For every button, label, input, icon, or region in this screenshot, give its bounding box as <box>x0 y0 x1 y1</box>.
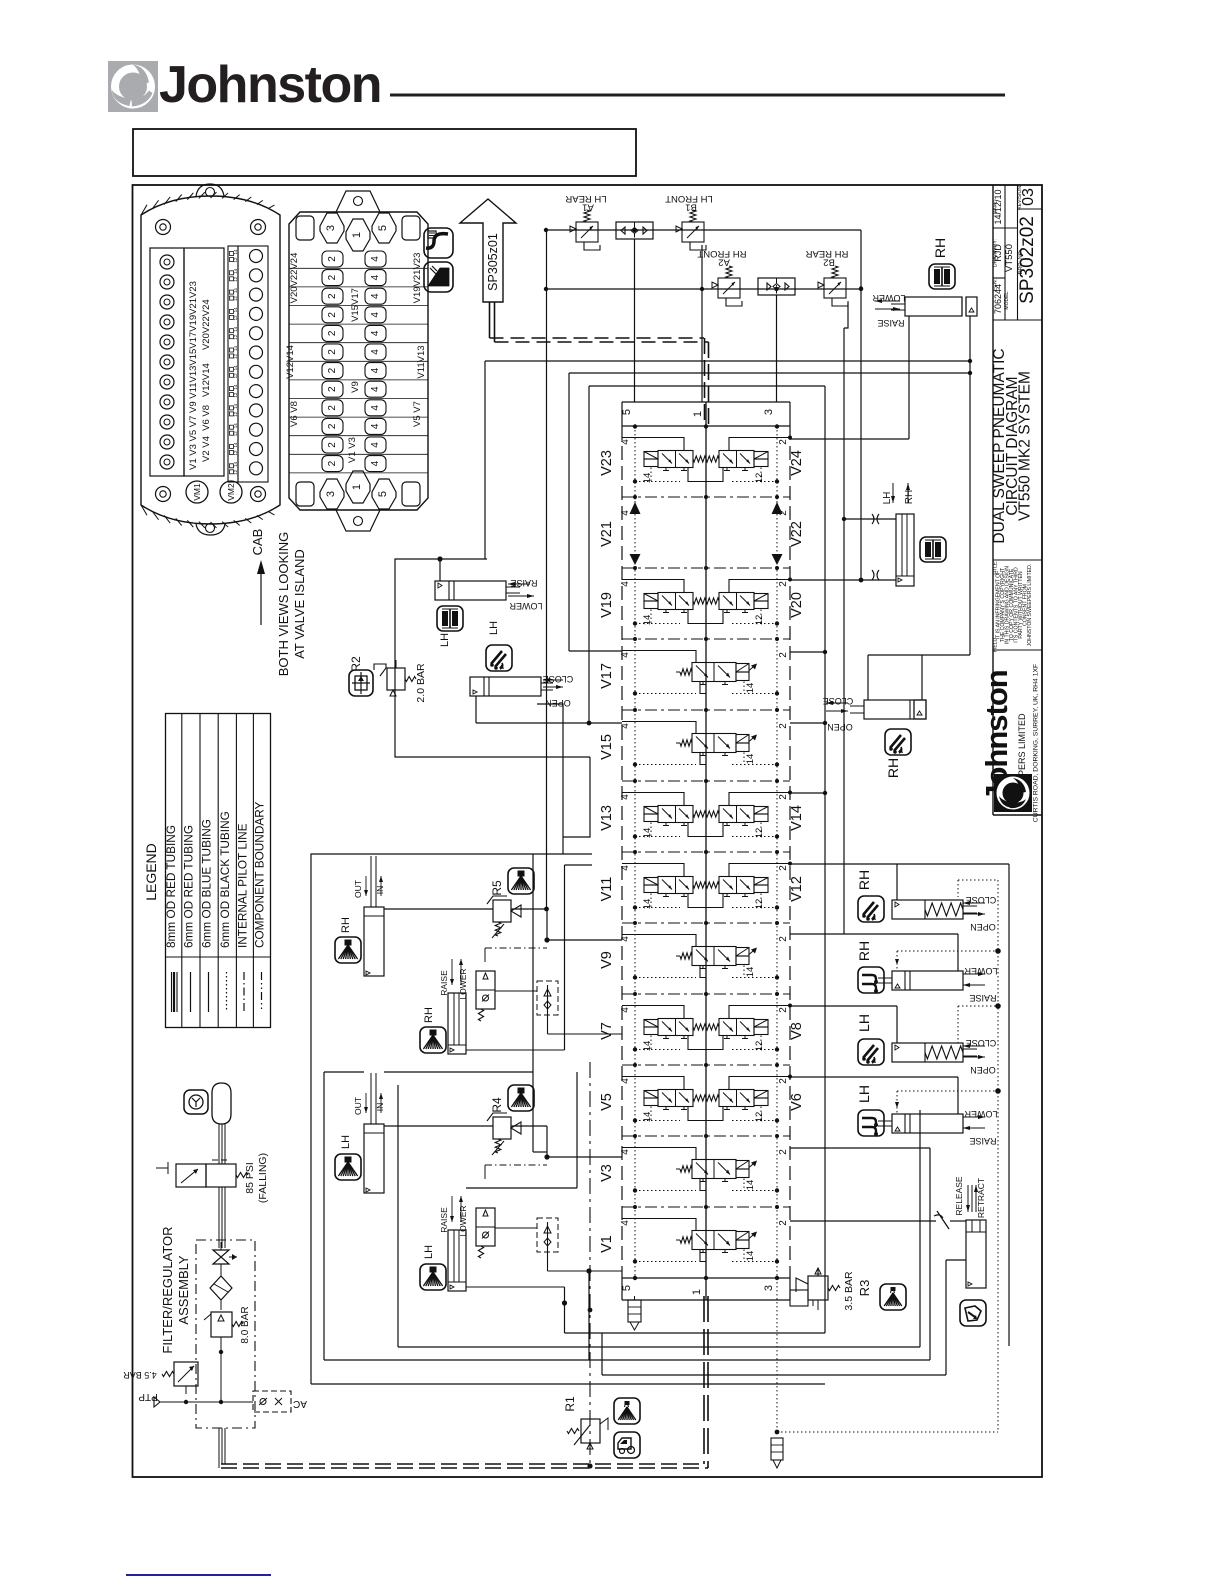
svg-text:OPEN: OPEN <box>827 722 853 732</box>
svg-text:85 PSI: 85 PSI <box>244 1162 256 1194</box>
pipes switch to box <box>218 1187 220 1248</box>
regulator R3 <box>808 1276 828 1300</box>
svg-text:4: 4 <box>370 274 381 280</box>
valve V17 single solenoid valve <box>622 651 779 696</box>
wire pilot bus lower <box>546 288 861 290</box>
icon rotary RH brush <box>858 896 884 922</box>
wire LH aux vertical <box>576 1072 578 1188</box>
icon lift RH <box>858 967 884 993</box>
svg-text:4: 4 <box>370 256 381 262</box>
svg-text:14/12/10: 14/12/10 <box>993 189 1003 224</box>
svg-text:LOWER: LOWER <box>509 601 543 611</box>
icon solenoid mid right <box>920 537 946 562</box>
svg-text:VM2: VM2 <box>226 483 236 501</box>
wire V17 port2 stub <box>790 651 825 653</box>
valve V13/V14 double solenoid valve <box>622 791 792 839</box>
flow arrows V21 V22 <box>630 502 641 514</box>
svg-text:12: 12 <box>233 411 238 417</box>
legend line samples <box>171 972 173 1012</box>
svg-text:2: 2 <box>778 1078 789 1084</box>
svg-text:V11V13: V11V13 <box>416 345 427 378</box>
svg-text:2: 2 <box>327 367 338 373</box>
svg-text:4: 4 <box>620 581 631 587</box>
svg-text:CLOSE: CLOSE <box>823 696 854 706</box>
connector block corner screws <box>156 220 171 235</box>
svg-text:OPEN: OPEN <box>970 1065 996 1075</box>
filter regulator boundary box <box>196 1240 255 1428</box>
svg-text:3: 3 <box>325 491 337 497</box>
svg-text:VT550: VT550 <box>1004 244 1015 272</box>
svg-text:V8: V8 <box>789 1022 805 1040</box>
svg-text:V17: V17 <box>599 663 615 689</box>
svg-text:14: 14 <box>642 828 653 839</box>
svg-text:V12: V12 <box>789 876 805 902</box>
svg-text:12: 12 <box>754 899 765 910</box>
wire bus top B <box>569 372 970 374</box>
svg-text:14: 14 <box>233 326 238 332</box>
icon water spray <box>424 262 453 292</box>
wire supply drop to LH subsystem <box>532 854 534 1152</box>
svg-text:12: 12 <box>233 276 238 282</box>
svg-text:12: 12 <box>233 373 238 379</box>
svg-text:12: 12 <box>233 296 238 302</box>
vertical cylinder LH/RH gear <box>896 514 914 586</box>
svg-text:RAISE: RAISE <box>439 1207 449 1233</box>
pilot valve A2 <box>712 266 742 306</box>
svg-text:4: 4 <box>620 1149 631 1155</box>
svg-text:03: 03 <box>1020 188 1037 206</box>
valve row separator <box>622 780 790 782</box>
svg-text:4: 4 <box>620 1007 631 1013</box>
svg-text:IN: IN <box>375 886 385 895</box>
island port buttons top <box>296 216 314 240</box>
svg-text:LH: LH <box>882 492 893 505</box>
valve V1 single solenoid valve <box>622 1219 779 1264</box>
svg-text:5: 5 <box>621 409 633 415</box>
wire bus top C <box>589 385 825 387</box>
valve V5/V6 double solenoid valve <box>622 1075 792 1123</box>
island station rows <box>289 267 428 269</box>
icon gauge <box>184 1090 208 1114</box>
valve bank port 1 rail <box>705 402 707 1300</box>
svg-text:V12V14: V12V14 <box>285 345 296 379</box>
svg-text:1: 1 <box>691 1289 703 1295</box>
wire subsystem verticals <box>564 865 566 1050</box>
svg-text:1: 1 <box>351 232 363 238</box>
valve row separator <box>622 1135 790 1137</box>
svg-text:AC: AC <box>293 1398 307 1409</box>
wire solid rail right <box>1008 864 1010 1346</box>
wire V3 port2 to bus <box>790 1147 930 1149</box>
svg-text:V6 V8: V6 V8 <box>289 401 300 427</box>
valve row separator <box>622 567 790 569</box>
svg-text:PTP: PTP <box>138 1391 158 1402</box>
wire LH check output <box>588 1271 590 1360</box>
svg-text:R3: R3 <box>857 1280 872 1297</box>
actuator RH brush OPEN/CLOSE <box>892 900 963 919</box>
svg-text:FILTER/REGULATOR: FILTER/REGULATOR <box>160 1226 175 1353</box>
wires squeegee <box>867 655 869 700</box>
icon rotary LH mid <box>486 645 512 671</box>
svg-text:2: 2 <box>778 865 789 871</box>
wire R5 supply drop <box>546 345 548 909</box>
wire bus join left <box>546 230 548 345</box>
svg-text:V5 V7: V5 V7 <box>412 401 423 427</box>
svg-text:5: 5 <box>377 491 389 497</box>
svg-text:V21: V21 <box>599 521 615 547</box>
svg-text:RH: RH <box>904 490 915 504</box>
svg-text:V23: V23 <box>599 450 615 476</box>
wire R2 box feed from bus <box>484 361 486 559</box>
wire bus right leg <box>860 230 862 580</box>
subsystem boxes <box>311 854 592 1384</box>
svg-text:12: 12 <box>233 392 238 398</box>
svg-text:LH: LH <box>856 1014 872 1032</box>
svg-text:RH: RH <box>856 870 872 890</box>
pilot dotted LH open <box>957 1006 959 1043</box>
wire bus top A <box>485 360 970 362</box>
svg-text:RAISE: RAISE <box>877 318 904 328</box>
svg-text:2: 2 <box>778 936 789 942</box>
actuator LH brush OPEN/CLOSE <box>892 1043 963 1062</box>
wire RH open feed <box>896 864 898 900</box>
svg-text:LH: LH <box>340 1135 352 1149</box>
valve row separator <box>622 993 790 995</box>
wire V15 port2 stub <box>790 722 825 724</box>
cylinder RH squeegee OPEN/CLOSE <box>850 700 926 719</box>
svg-text:4: 4 <box>370 367 381 373</box>
wire cylinder cap port to bus <box>969 316 971 655</box>
wire 8mm supply from SP305z01 <box>489 302 491 338</box>
svg-text:B2: B2 <box>823 257 835 268</box>
svg-text:V1 V3: V1 V3 <box>347 437 358 463</box>
connector block pin squares strip <box>228 246 238 482</box>
svg-text:FIELD: FIELD <box>993 638 999 653</box>
component boundary mid <box>589 1062 591 1464</box>
icon suction wideboy <box>960 1300 986 1326</box>
svg-text:OUT: OUT <box>353 1097 363 1115</box>
cylinder LH suspension RAISE/LOWER <box>435 581 520 600</box>
off-page arrow SP305z01 <box>460 199 516 302</box>
svg-text:B1: B1 <box>685 202 697 213</box>
svg-text:14: 14 <box>642 1041 653 1052</box>
valve bank pilot rails <box>634 426 636 1278</box>
svg-text:14: 14 <box>745 1180 756 1191</box>
svg-text:OPEN: OPEN <box>545 698 571 708</box>
pilot dotted RH open <box>957 880 959 897</box>
svg-text:14: 14 <box>642 615 653 626</box>
wire cylinder rod port to V24 <box>908 316 910 439</box>
svg-text:VM1: VM1 <box>192 483 202 501</box>
svg-text:4: 4 <box>620 439 631 445</box>
svg-text:12: 12 <box>754 828 765 839</box>
pressure switch 85 PSI <box>176 1164 206 1187</box>
valve row separator <box>622 922 790 924</box>
svg-text:12: 12 <box>754 615 765 626</box>
header rule line <box>390 94 1005 97</box>
svg-text:14: 14 <box>233 442 238 448</box>
svg-text:2: 2 <box>327 386 338 392</box>
hose break symbols <box>872 514 874 524</box>
icon fan R1 <box>614 1398 640 1424</box>
svg-text:3: 3 <box>325 225 337 231</box>
svg-text:4: 4 <box>370 330 381 336</box>
svg-text:V22: V22 <box>789 521 805 547</box>
svg-text:V24: V24 <box>789 450 805 476</box>
svg-text:BOTH VIEWS LOOKING: BOTH VIEWS LOOKING <box>276 532 291 676</box>
svg-text:OPEN: OPEN <box>970 922 996 932</box>
svg-text:V1 V3 V5 V7 V9 V11V13V15V17V19: V1 V3 V5 V7 V9 V11V13V15V17V19V21V23 <box>188 281 199 470</box>
wire V15 pilot feed <box>588 386 590 723</box>
svg-text:6mm OD BLACK TUBING: 6mm OD BLACK TUBING <box>218 811 232 948</box>
pilot valve B2 <box>818 266 848 306</box>
svg-text:2: 2 <box>327 330 338 336</box>
svg-text:14: 14 <box>233 307 238 313</box>
subsystem LH brush air <box>335 1073 622 1291</box>
svg-text:4: 4 <box>370 423 381 429</box>
svg-text:4: 4 <box>620 1078 631 1084</box>
svg-text:AT VALVE ISLAND: AT VALVE ISLAND <box>292 549 307 659</box>
actuator RH brush RAISE/LOWER <box>892 971 963 990</box>
svg-text:4: 4 <box>370 312 381 318</box>
svg-text:14: 14 <box>642 473 653 484</box>
svg-text:LH: LH <box>439 633 451 647</box>
svg-text:4: 4 <box>370 442 381 448</box>
title block swirl logo <box>994 774 1032 812</box>
svg-text:1: 1 <box>351 484 363 490</box>
svg-text:RH: RH <box>856 941 872 961</box>
wires to gear cylinder <box>844 518 896 520</box>
svg-text:14: 14 <box>233 288 238 294</box>
svg-text:12: 12 <box>233 315 238 321</box>
svg-text:Johnston: Johnston <box>159 56 381 114</box>
wire LH open feed <box>896 1006 898 1043</box>
svg-text:RH: RH <box>340 917 352 933</box>
legend box <box>166 714 271 1028</box>
valve V19/V20 double solenoid valve <box>622 578 792 626</box>
drawing frame border <box>133 185 1043 1477</box>
valve V23/V24 double solenoid valve <box>622 436 792 484</box>
svg-text:4: 4 <box>370 460 381 466</box>
valve row separator <box>622 709 790 711</box>
needle valve wideboy <box>937 1211 949 1229</box>
svg-text:4: 4 <box>370 405 381 411</box>
PTP port <box>154 1397 160 1407</box>
svg-text:COMPONENT BOUNDARY: COMPONENT BOUNDARY <box>252 801 266 948</box>
svg-text:12: 12 <box>754 473 765 484</box>
svg-text:OUT: OUT <box>353 880 363 898</box>
svg-text:RJD: RJD <box>993 244 1003 262</box>
wire regulator down <box>220 1337 222 1362</box>
svg-text:INTERNAL PILOT LINE: INTERNAL PILOT LINE <box>235 823 249 948</box>
svg-text:VT550 MK2 SYSTEM: VT550 MK2 SYSTEM <box>1017 371 1034 521</box>
svg-text:V5: V5 <box>599 1093 615 1111</box>
icon rotary RH mid <box>885 729 911 755</box>
svg-text:3: 3 <box>763 1285 775 1291</box>
svg-text:V15: V15 <box>599 734 615 760</box>
valve bank outline <box>621 402 623 426</box>
svg-text:12: 12 <box>233 431 238 437</box>
empty title box <box>133 129 636 176</box>
svg-text:2: 2 <box>327 256 338 262</box>
svg-text:V19: V19 <box>599 592 615 618</box>
svg-text:5: 5 <box>377 225 389 231</box>
svg-text:4: 4 <box>370 386 381 392</box>
silencer drain line <box>776 1278 778 1432</box>
icon lift LH <box>858 1110 884 1136</box>
svg-text:CAB: CAB <box>250 529 265 556</box>
svg-text:14: 14 <box>233 346 238 352</box>
svg-text:V6: V6 <box>789 1093 805 1111</box>
valve V9 single solenoid valve <box>622 935 779 980</box>
svg-text:4: 4 <box>620 936 631 942</box>
svg-text:2: 2 <box>327 460 338 466</box>
title block outline <box>992 185 994 815</box>
svg-text:V15V17: V15V17 <box>350 288 361 322</box>
AC check valves <box>253 1391 291 1412</box>
cylinder LH squeegee OPEN/CLOSE mid <box>470 677 553 696</box>
pilot valve B1 <box>676 210 706 250</box>
svg-text:R5: R5 <box>490 880 504 896</box>
svg-text:2: 2 <box>778 794 789 800</box>
Johnston header logo swirl <box>108 61 158 112</box>
svg-text:RAISE: RAISE <box>969 993 996 1003</box>
svg-text:14: 14 <box>642 1112 653 1123</box>
svg-text:2: 2 <box>778 1007 789 1013</box>
shutoff valve <box>213 1250 229 1264</box>
subsystem RH brush air <box>335 856 622 1054</box>
valve row separator <box>622 851 790 853</box>
svg-text:2: 2 <box>327 293 338 299</box>
dotted rail right <box>997 880 999 1432</box>
wire V1 port2 to wideboy <box>790 1220 936 1222</box>
svg-text:2: 2 <box>778 723 789 729</box>
svg-text:14: 14 <box>233 365 238 371</box>
svg-text:IN: IN <box>375 1103 385 1112</box>
wire LH lift feed <box>790 1076 958 1078</box>
actuator LH brush RAISE/LOWER <box>892 1114 963 1133</box>
silencer port 5 bottom <box>628 1300 641 1322</box>
svg-text:4: 4 <box>620 652 631 658</box>
svg-text:V3: V3 <box>599 1164 615 1182</box>
silencer bottom right <box>771 1438 783 1460</box>
svg-text:3: 3 <box>763 409 775 415</box>
svg-text:4: 4 <box>620 1220 631 1226</box>
svg-text:(FALLING): (FALLING) <box>257 1153 269 1203</box>
shuttle valve 1 <box>616 222 653 239</box>
shuttle valve 2 <box>758 278 795 295</box>
svg-text:14: 14 <box>745 967 756 978</box>
svg-text:RH: RH <box>423 1007 435 1023</box>
svg-text:14: 14 <box>233 403 238 409</box>
wire right rail 844 <box>843 328 845 934</box>
pilot valve A1 <box>570 210 600 250</box>
svg-text:MODEL:: MODEL: <box>1004 290 1010 309</box>
svg-text:4: 4 <box>370 349 381 355</box>
valve row separator <box>622 1206 790 1208</box>
icon fan R3 <box>880 1284 906 1310</box>
svg-text:A2: A2 <box>718 257 730 268</box>
svg-text:2: 2 <box>778 439 789 445</box>
svg-text:4: 4 <box>620 723 631 729</box>
wire V17 pilot feed <box>568 373 570 651</box>
wire bottom buses <box>565 1332 826 1334</box>
svg-text:2: 2 <box>778 1220 789 1226</box>
svg-text:2: 2 <box>778 581 789 587</box>
svg-text:2: 2 <box>327 349 338 355</box>
svg-text:4: 4 <box>370 293 381 299</box>
svg-text:2: 2 <box>327 442 338 448</box>
wire dotted drain bottom <box>777 1431 998 1433</box>
valve V3 single solenoid valve <box>622 1148 779 1193</box>
wire box bottom to supply <box>218 1428 220 1464</box>
valve row separator <box>622 638 790 640</box>
wire cyl top entry <box>439 559 441 581</box>
svg-text:6mm OD BLUE TUBING: 6mm OD BLUE TUBING <box>200 819 214 948</box>
svg-text:3.5 BAR: 3.5 BAR <box>843 1271 855 1311</box>
svg-text:8mm OD RED TUBING: 8mm OD RED TUBING <box>164 825 178 948</box>
svg-text:SP305z01: SP305z01 <box>486 233 500 291</box>
wire shuttle1 to port 5 <box>634 239 636 402</box>
svg-text:1: 1 <box>692 411 704 417</box>
svg-text:14: 14 <box>233 268 238 274</box>
svg-text:2: 2 <box>327 312 338 318</box>
supply drop from port1 <box>703 1296 705 1464</box>
regulator R1 <box>581 1419 600 1443</box>
svg-text:2.0 BAR: 2.0 BAR <box>415 663 427 703</box>
svg-text:12: 12 <box>233 257 238 263</box>
connector block label columns <box>184 248 224 476</box>
svg-text:4.5 BAR: 4.5 BAR <box>123 1370 157 1380</box>
regulator R2 <box>387 668 405 690</box>
wire pilot bus upper <box>546 229 861 231</box>
svg-text:14: 14 <box>745 683 756 694</box>
receiver pipes <box>218 1124 220 1164</box>
filter <box>210 1276 232 1300</box>
wire box R2 group <box>395 559 590 757</box>
svg-text:4: 4 <box>620 865 631 871</box>
svg-text:14: 14 <box>233 249 238 255</box>
CAB arrow <box>260 572 262 625</box>
wire shuttle2 to port 3 <box>776 295 778 402</box>
svg-text:V9: V9 <box>350 381 361 393</box>
svg-text:2: 2 <box>778 1149 789 1155</box>
wire right rail 825 <box>824 386 826 1333</box>
svg-text:2: 2 <box>778 652 789 658</box>
svg-text:4: 4 <box>620 510 631 516</box>
svg-text:SP302z02: SP302z02 <box>1017 216 1038 304</box>
svg-text:LH: LH <box>423 1245 435 1259</box>
svg-text:ASSEMBLY: ASSEMBLY <box>176 1255 191 1324</box>
island port buttons bottom <box>296 482 314 506</box>
pilot dotted RH raise <box>897 950 998 952</box>
cylinder RH rear suspension RAISE/LOWER <box>891 297 977 316</box>
svg-text:LH: LH <box>488 621 500 635</box>
wire R3 drop <box>817 1300 819 1310</box>
air receiver <box>212 1083 231 1124</box>
svg-text:V20: V20 <box>789 592 805 618</box>
svg-text:RELEASE: RELEASE <box>954 1176 964 1216</box>
connector block VM outline <box>141 196 280 524</box>
connector block hatched arcs <box>141 205 147 215</box>
svg-text:JOHNSTON SWEEPERS LIMITED.: JOHNSTON SWEEPERS LIMITED. <box>1027 564 1033 647</box>
connector block VM1 VM2 terminals <box>186 481 208 503</box>
icon filterreg R2 <box>349 670 373 696</box>
icon solenoid RH top <box>929 264 955 289</box>
svg-text:12: 12 <box>233 450 238 456</box>
svg-text:RAISE: RAISE <box>439 970 449 996</box>
svg-text:RETRACT: RETRACT <box>976 1178 986 1218</box>
